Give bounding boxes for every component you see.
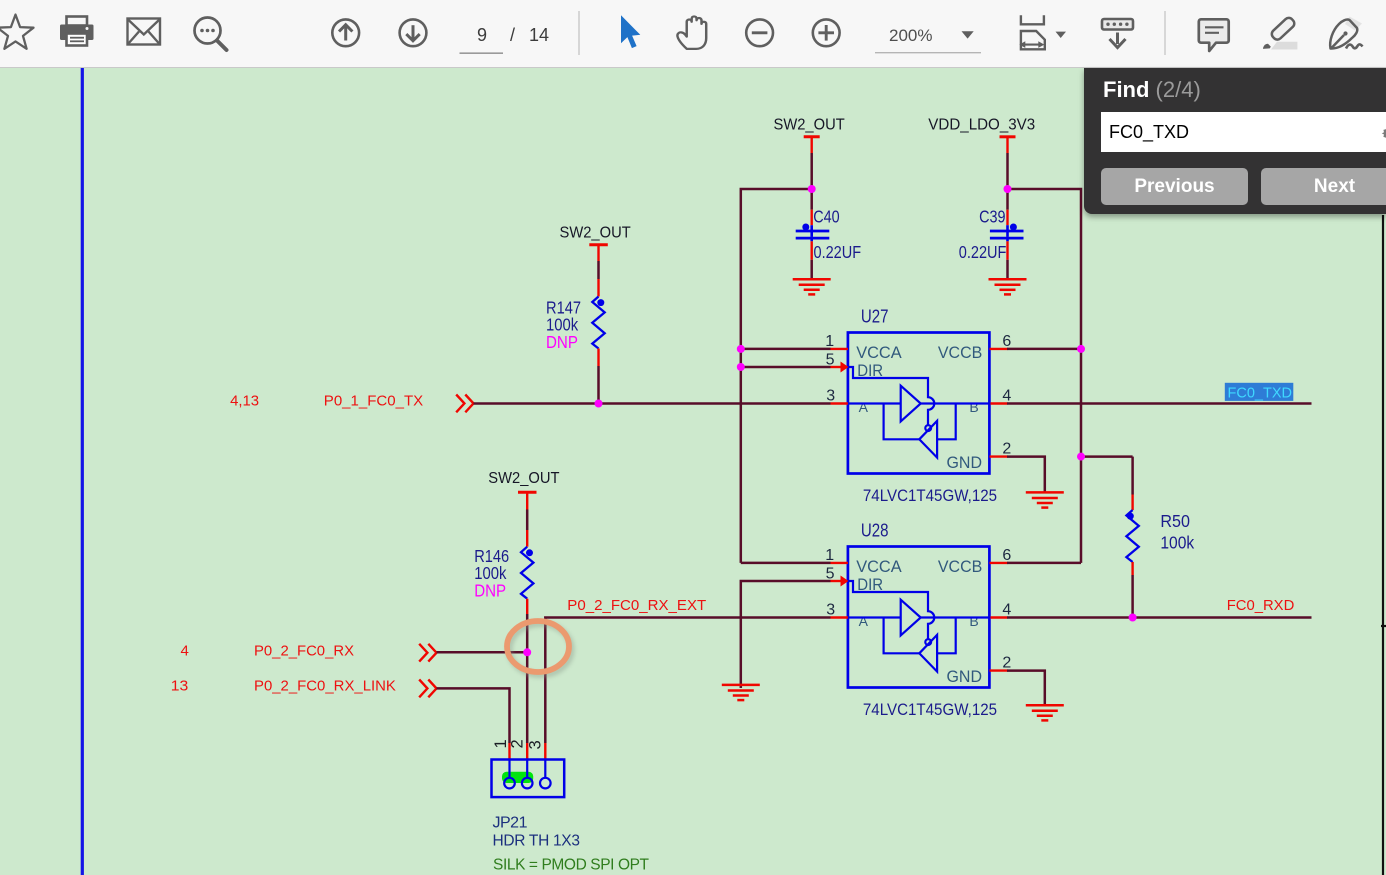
- previous page button: [332, 19, 359, 46]
- net FC0_TXD (find highlight): [1225, 383, 1294, 402]
- U27 internal buffers: [848, 367, 991, 458]
- svg-text:HDR TH 1X3: HDR TH 1X3: [493, 833, 580, 850]
- svg-text:P0_2_FC0_RX_EXT: P0_2_FC0_RX_EXT: [567, 597, 706, 614]
- capacitor C40: [796, 207, 861, 262]
- node U27 VCCB junction: [1077, 345, 1085, 353]
- wire VDD junction to right rail: [1008, 189, 1082, 563]
- resistor R147: [546, 279, 605, 366]
- wire C39 to ground: [1006, 241, 1008, 278]
- svg-text:A: A: [859, 399, 869, 415]
- svg-text:JP21: JP21: [493, 815, 528, 832]
- svg-text:74LVC1T45GW,125: 74LVC1T45GW,125: [863, 700, 997, 719]
- off-page connector P0_2_FC0_RX_LINK: [419, 680, 436, 698]
- svg-text:B: B: [969, 613, 978, 629]
- wire U28 VCCB to VDD rail: [1007, 562, 1081, 565]
- svg-text:R50: R50: [1160, 511, 1190, 531]
- wire SW2_OUT vertical to junction: [810, 153, 813, 189]
- sign tool: [1330, 17, 1362, 49]
- annotation orange circle: [507, 621, 572, 675]
- svg-text:9: 9: [477, 25, 487, 45]
- net P0_2_FC0_RX_LINK: [171, 678, 396, 695]
- hand tool: [677, 16, 706, 48]
- svg-text:VCCA: VCCA: [856, 343, 902, 362]
- wire P0_2_FC0_RX: [437, 651, 528, 654]
- ground at C40: [793, 279, 831, 294]
- ground at U28 pin 2: [1026, 705, 1064, 720]
- annotation green mark on pins 1-2: [502, 772, 533, 783]
- op-amp U28 level shifter: [825, 521, 1011, 720]
- U28 pin 5 DIR arrowhead: [841, 576, 849, 587]
- zoom in button: [813, 19, 840, 46]
- svg-text:P0_2_FC0_RX: P0_2_FC0_RX: [254, 643, 354, 660]
- svg-text:U27: U27: [861, 307, 889, 327]
- email icon: [128, 19, 161, 45]
- svg-text:VCCB: VCCB: [938, 557, 982, 576]
- svg-text:SW2_OUT: SW2_OUT: [774, 117, 845, 134]
- toolbar separator 2: [1164, 11, 1166, 55]
- wire U27 VCCA to rail: [741, 348, 831, 351]
- zoom out button: [746, 19, 773, 46]
- svg-text:4,13: 4,13: [230, 393, 259, 410]
- wire P0_2_FC0_RX_LINK to JP21 pin 1: [437, 688, 510, 743]
- net P0_1_FC0_TX: [230, 393, 423, 410]
- highlight tool: [1263, 16, 1297, 49]
- svg-text:SW2_OUT: SW2_OUT: [560, 225, 631, 242]
- svg-text:0.22UF: 0.22UF: [959, 242, 1007, 262]
- svg-text:1: 1: [825, 547, 834, 564]
- svg-text:14: 14: [529, 25, 549, 45]
- wire junction to C40: [810, 189, 813, 225]
- svg-text:GND: GND: [947, 453, 983, 472]
- svg-text:200%: 200%: [889, 26, 932, 45]
- schematic page border (black, right): [1381, 215, 1386, 875]
- svg-text:P0_2_FC0_RX_LINK: P0_2_FC0_RX_LINK: [254, 678, 396, 695]
- ground at U27 pin 2: [1026, 492, 1064, 507]
- fit width icon: [1019, 15, 1045, 49]
- power flag SW2_OUT (at R147): [560, 225, 631, 262]
- wire C40 to ground: [811, 241, 813, 278]
- resistor R146: [474, 530, 533, 614]
- off-page connector P0_2_FC0_RX: [419, 644, 436, 662]
- node R147/TX junction: [595, 400, 603, 408]
- svg-text:FC0_RXD: FC0_RXD: [1227, 597, 1295, 614]
- svg-text:C40: C40: [813, 207, 840, 227]
- svg-text:74LVC1T45GW,125: 74LVC1T45GW,125: [863, 486, 997, 505]
- svg-text:2: 2: [508, 740, 526, 749]
- svg-text:SILK = PMOD SPI OPT: SILK = PMOD SPI OPT: [493, 857, 650, 874]
- wire P0_1_FC0_TX: [474, 402, 831, 405]
- comment tool: [1199, 19, 1229, 51]
- U28 pin stubs: [831, 563, 1008, 671]
- node VDD rail / R50 junction: [1077, 453, 1085, 461]
- wire U27 GND pin: [1007, 457, 1045, 492]
- svg-text:VCCB: VCCB: [938, 343, 982, 362]
- svg-text:3: 3: [527, 741, 545, 750]
- star favorite icon: [0, 15, 34, 49]
- ground at C39: [989, 279, 1027, 294]
- svg-text:VCCA: VCCA: [856, 557, 902, 576]
- svg-text:100k: 100k: [1160, 532, 1194, 552]
- JP21 pin stubs: [510, 743, 546, 760]
- svg-text:U28: U28: [861, 521, 889, 541]
- power flag SW2_OUT (at R146): [488, 470, 559, 510]
- svg-text:6: 6: [1002, 333, 1011, 350]
- wire rail to R50: [1081, 455, 1133, 458]
- node U27 DIR junction: [737, 363, 745, 371]
- show toolbar icon: [1102, 19, 1133, 48]
- svg-text:B: B: [969, 399, 978, 415]
- print icon: [60, 17, 94, 46]
- op-amp U27 level shifter: [825, 307, 1011, 506]
- svg-text:2: 2: [1002, 440, 1011, 457]
- svg-text:1: 1: [825, 333, 834, 350]
- svg-text:4: 4: [181, 643, 189, 660]
- wire FC0_RXD: [1007, 616, 1312, 619]
- svg-text:3: 3: [826, 387, 835, 404]
- node RX junction: [523, 648, 531, 656]
- next page button: [400, 19, 427, 46]
- power flag VDD_LDO_3V3: [928, 117, 1035, 154]
- schematic page border (blue): [81, 68, 84, 875]
- svg-text:/: /: [510, 25, 515, 45]
- JP21 pin circles: [504, 760, 550, 788]
- U28 internal buffers: [848, 581, 991, 672]
- toolbar separator: [578, 11, 580, 55]
- net P0_2_FC0_RX: [181, 643, 355, 660]
- svg-text:4: 4: [1002, 387, 1011, 404]
- wire U28 DIR to ground: [741, 581, 831, 688]
- wire SW2_OUT to R147: [597, 261, 600, 279]
- resistor R50: [1126, 457, 1194, 618]
- wire VDD vertical to junction: [1006, 153, 1009, 189]
- U27 pin 5 DIR arrowhead: [841, 362, 849, 373]
- wire U28 VCCA to rail: [741, 562, 831, 565]
- svg-text:3: 3: [826, 601, 835, 618]
- connector JP21: [492, 740, 650, 874]
- capacitor C39: [959, 207, 1024, 262]
- svg-text:C39: C39: [979, 207, 1005, 227]
- svg-text:4: 4: [1002, 601, 1011, 618]
- page number field: [477, 25, 549, 45]
- svg-text:6: 6: [1002, 547, 1011, 564]
- node VDD junction at C39: [1004, 185, 1012, 193]
- svg-text:SW2_OUT: SW2_OUT: [488, 470, 559, 487]
- svg-text:VDD_LDO_3V3: VDD_LDO_3V3: [928, 117, 1035, 134]
- wire R146 down to JP21 pin 2: [526, 614, 529, 743]
- ground at U28 DIR: [722, 685, 760, 700]
- svg-text:FC0_TXD: FC0_TXD: [1228, 385, 1293, 402]
- off-page connector P0_1_FC0_TX: [456, 395, 473, 413]
- svg-text:2: 2: [1002, 654, 1011, 671]
- svg-text:A: A: [859, 613, 869, 629]
- wire U27 VCCB to VDD rail: [1007, 348, 1081, 351]
- svg-text:P0_1_FC0_TX: P0_1_FC0_TX: [324, 393, 423, 410]
- svg-text:GND: GND: [947, 667, 983, 686]
- select tool cursor (active, blue): [621, 15, 640, 48]
- power flag SW2_OUT (top): [774, 117, 845, 154]
- node SW2_OUT junction at C40: [808, 185, 816, 193]
- wire junction to C39: [1006, 189, 1009, 225]
- svg-text:1: 1: [492, 740, 510, 749]
- wire P0_2_FC0_RX_EXT: [545, 618, 830, 744]
- svg-text:13: 13: [171, 678, 189, 695]
- svg-text:DNP: DNP: [546, 332, 578, 352]
- U27 pin stubs: [831, 349, 1008, 457]
- svg-text:DNP: DNP: [474, 580, 506, 600]
- wire U27 DIR to rail: [741, 366, 831, 369]
- wire FC0_TXD: [1007, 402, 1312, 405]
- node U27 VCCA junction: [737, 345, 745, 353]
- wire SW2_OUT to R146: [526, 510, 529, 531]
- wire SW2_OUT junction to left rail: [741, 189, 812, 563]
- svg-text:0.22UF: 0.22UF: [814, 242, 862, 262]
- wire R147 to TX net: [597, 366, 600, 404]
- wire U28 GND pin: [1007, 671, 1045, 705]
- search icon: [195, 18, 227, 51]
- node R50 / FC0_RXD junction: [1129, 614, 1137, 622]
